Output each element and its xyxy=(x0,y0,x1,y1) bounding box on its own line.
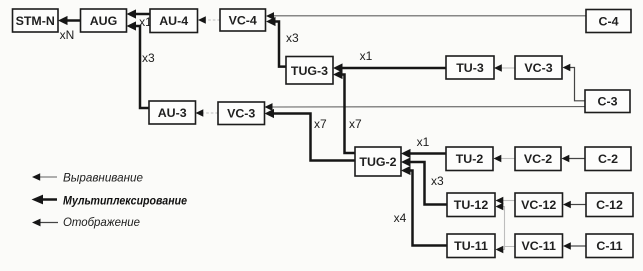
wire VC-2 to TU-2 (alignment) xyxy=(494,155,516,163)
svg-text:AU-3: AU-3 xyxy=(158,106,187,120)
svg-text:x1: x1 xyxy=(417,135,430,149)
box VC-11 xyxy=(515,234,563,258)
box VC-2 xyxy=(515,147,561,171)
wire TU-11 to TUG-2 (multiplexing x4) xyxy=(401,166,447,246)
legend arrow multiplexing xyxy=(32,195,58,205)
svg-text:VC-3: VC-3 xyxy=(524,61,552,75)
box C-4 xyxy=(586,10,631,33)
box TU-12 xyxy=(447,193,495,217)
box VC-12 xyxy=(515,193,563,217)
wire C-3 to upper VC-3 (mapping branch) xyxy=(563,64,586,101)
wire C-4 to VC-4 (mapping) xyxy=(266,12,586,20)
box C-12 xyxy=(586,193,633,217)
box AU-3 xyxy=(149,101,196,124)
box TUG-3 xyxy=(286,57,333,85)
svg-text:TU-11: TU-11 xyxy=(454,239,488,253)
wire TU-12 to TUG-2 (multiplexing x3) xyxy=(401,157,447,204)
wire VC-3 upper to TU-3 (alignment) xyxy=(494,64,515,72)
wire VC-11 to TU-11 (alignment) xyxy=(496,246,505,254)
box VC-3 upper xyxy=(515,56,562,79)
wire TU-2 to TUG-2 (multiplexing x1) xyxy=(401,149,446,158)
svg-text:C-3: C-3 xyxy=(598,95,618,109)
wire AU-3 to AUG (multiplexing x3) xyxy=(127,21,150,108)
svg-text:TU-3: TU-3 xyxy=(456,61,484,75)
svg-text:VC-2: VC-2 xyxy=(524,152,552,166)
svg-text:VC-12: VC-12 xyxy=(521,198,556,212)
svg-text:C-11: C-11 xyxy=(596,239,622,253)
box C-11 xyxy=(586,234,633,258)
svg-text:Отображение: Отображение xyxy=(63,215,140,229)
box TU-3 xyxy=(446,56,494,79)
wire C-12 to VC-12 (mapping) xyxy=(563,201,586,209)
svg-text:x1: x1 xyxy=(360,49,373,63)
wire VC-11 to TU-12 (alignment branch) xyxy=(496,203,516,247)
box VC-3 lower xyxy=(218,102,265,125)
svg-text:TU-12: TU-12 xyxy=(454,198,489,212)
box TU-11 xyxy=(447,234,495,258)
legend arrow alignment xyxy=(32,173,57,181)
box AU-4 xyxy=(150,9,198,33)
wire TUG-2 to lower VC-3 (multiplexing x7) xyxy=(265,109,356,161)
svg-text:C-12: C-12 xyxy=(596,198,623,212)
wire VC-4 to AU-4 (alignment) xyxy=(198,16,220,24)
svg-text:STM-N: STM-N xyxy=(16,14,55,28)
svg-text:Выравнивание: Выравнивание xyxy=(63,171,143,185)
wire TU-3 to TUG-3 (multiplexing x1) xyxy=(333,63,446,72)
svg-text:C-4: C-4 xyxy=(599,15,619,29)
svg-text:TUG-3: TUG-3 xyxy=(291,64,328,78)
wire C-3 to lower VC-3 (mapping, long) xyxy=(265,103,586,111)
svg-text:x3: x3 xyxy=(142,51,155,65)
svg-text:TUG-2: TUG-2 xyxy=(359,155,396,169)
wire TUG-2 to TUG-3 (multiplexing x7) xyxy=(333,70,355,153)
svg-text:x7: x7 xyxy=(349,117,362,131)
svg-text:AUG: AUG xyxy=(90,14,118,28)
svg-text:VC-3: VC-3 xyxy=(227,107,255,121)
wire AU-4 to AUG (multiplexing x1) xyxy=(127,9,151,18)
box C-2 xyxy=(585,147,631,171)
wire VC-12 to TU-12 (alignment) xyxy=(496,197,516,205)
svg-text:VC-4: VC-4 xyxy=(229,14,257,28)
svg-text:x3: x3 xyxy=(431,174,444,188)
svg-text:xN: xN xyxy=(60,28,75,42)
wire TUG-3 to VC-4 (multiplexing x3) xyxy=(266,17,286,67)
box TU-2 xyxy=(446,147,493,171)
svg-text:Мультиплексирование: Мультиплексирование xyxy=(63,193,187,207)
svg-text:x7: x7 xyxy=(314,117,327,131)
box STM-N xyxy=(13,9,59,32)
box C-3 xyxy=(585,90,630,113)
svg-text:C-2: C-2 xyxy=(598,152,618,166)
svg-text:AU-4: AU-4 xyxy=(159,14,188,28)
box TUG-2 xyxy=(355,147,401,176)
svg-text:TU-2: TU-2 xyxy=(456,152,484,166)
wire lower VC-3 to AU-3 (alignment) xyxy=(196,109,219,117)
wire AUG to STM-N (multiplexing) xyxy=(58,16,81,25)
legend arrow mapping xyxy=(32,219,58,227)
svg-text:VC-11: VC-11 xyxy=(521,239,556,253)
wire C-2 to VC-2 (mapping) xyxy=(562,155,586,163)
box AUG xyxy=(81,9,127,32)
svg-text:x4: x4 xyxy=(394,211,407,225)
wire C-11 to VC-11 (mapping) xyxy=(563,242,586,250)
svg-text:x3: x3 xyxy=(286,31,299,45)
box VC-4 xyxy=(220,9,266,31)
